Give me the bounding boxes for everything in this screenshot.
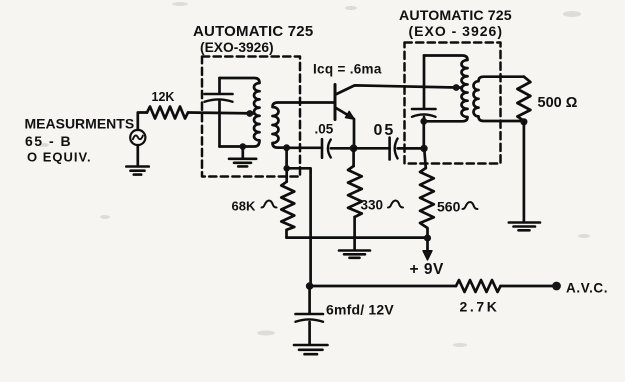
resistor 500 [517, 77, 530, 121]
resistor 560 [420, 168, 434, 238]
capacitor (T1 tank) [218, 78, 221, 147]
inductor T2 secondary [474, 77, 524, 121]
node +9V junction [424, 234, 431, 241]
label ohm squiggle 560 [463, 202, 478, 209]
label 2.7K [460, 299, 500, 315]
signal source G1 [130, 130, 145, 145]
ground (500) [509, 223, 540, 231]
transformer T1 dashed box [202, 57, 300, 177]
resistor 330 [348, 166, 362, 217]
node T1 ground junction [240, 143, 247, 150]
rail 68K bottom to +9V node [287, 236, 428, 239]
label MEASURMENTS 65-B O EQUIV. [25, 116, 135, 165]
label AUTOMATIC 725 (T2) [399, 8, 512, 39]
svg-text:12K: 12K [152, 90, 175, 104]
wire T1 bottom to .05 [287, 146, 322, 149]
node emitter junction [350, 144, 358, 152]
wire T2 top branch [423, 56, 426, 109]
inductor T1 secondary + base wire [273, 103, 335, 148]
wire 2.7K to AVC [501, 285, 557, 288]
wire source to ground [136, 145, 139, 166]
svg-text:Icq = .6ma: Icq = .6ma [313, 62, 382, 77]
label .05 [315, 122, 334, 137]
node T1 secondary bottom [283, 144, 290, 151]
wire T2 cap bottom to 05 line [422, 121, 425, 148]
node T2 / 05 junction [420, 145, 427, 152]
svg-text:500 Ω: 500 Ω [538, 95, 578, 111]
svg-text:AUTOMATIC 725: AUTOMATIC 725 [399, 8, 512, 24]
wire emitter node to 330 [352, 148, 355, 166]
node T1 primary tap [246, 110, 253, 117]
svg-text:560: 560 [437, 199, 461, 215]
svg-text:68K: 68K [232, 199, 256, 214]
wire bias node to 68K [285, 168, 288, 181]
capacitor 6mfd/12V [308, 286, 311, 314]
label 6mfd/12V [326, 302, 394, 318]
node T2 primary tap [453, 84, 460, 91]
label AUTOMATIC 725 (T1) [193, 23, 313, 55]
ground (6mfd) [294, 345, 328, 354]
svg-text:(EXO-3926): (EXO-3926) [200, 40, 274, 55]
svg-text:AUTOMATIC 725: AUTOMATIC 725 [193, 23, 313, 40]
inductor T2 primary [424, 56, 468, 122]
svg-text:O EQUIV.: O EQUIV. [27, 150, 92, 165]
resistor 12K [147, 107, 188, 119]
ground (T1) [229, 159, 256, 167]
wire 05 to T2 [398, 147, 424, 150]
node A.V.C. terminal [552, 282, 561, 291]
wire emitter node to 05 [354, 147, 390, 150]
transformer T2 dashed box [405, 43, 501, 164]
AVC rail [310, 285, 456, 288]
wire source to 12K [138, 113, 147, 130]
inductor T1 primary [220, 78, 260, 147]
label 05 [374, 122, 396, 139]
+9V supply arrow [426, 241, 429, 251]
capacitor (T2 tank) [412, 108, 436, 111]
resistor 2.7K [456, 280, 501, 292]
label 500 ohm [538, 95, 578, 111]
svg-text:MEASURMENTS: MEASURMENTS [25, 116, 135, 132]
svg-text:A.V.C.: A.V.C. [566, 281, 608, 296]
node AVC rail junction [306, 282, 314, 290]
svg-text:2.7K: 2.7K [460, 299, 500, 315]
label ohm squiggle 330 [388, 201, 403, 208]
ground (source) [126, 167, 149, 175]
wire 330 to ground [353, 217, 356, 250]
wire T1 secondary bottom down [285, 148, 288, 169]
capacitor 05 [388, 138, 391, 160]
node 500 bottom [520, 118, 527, 125]
resistor 68K [281, 182, 294, 238]
svg-text:+ 9V: + 9V [410, 261, 444, 278]
wire T1 node to ground [241, 147, 244, 159]
label Icq = .6ma [313, 62, 382, 77]
wire bias node to AVC drop [287, 168, 311, 286]
capacitor .05 [321, 139, 324, 158]
label A.V.C. [566, 281, 608, 296]
wire T2 node down to 560 [424, 148, 426, 168]
wire .05 to emitter node [331, 147, 354, 150]
label 12K [152, 90, 175, 104]
label 68K [232, 199, 256, 214]
wire 500 to ground [523, 122, 526, 223]
label 560 [437, 199, 461, 215]
svg-text:05: 05 [374, 122, 396, 139]
transistor Q1 [334, 85, 337, 120]
label ohm squiggle 68K [262, 201, 277, 208]
svg-text:330: 330 [361, 198, 384, 213]
node T2 cap bottom [420, 118, 427, 125]
svg-text:(EXO - 3926): (EXO - 3926) [409, 23, 503, 39]
ground (330) [339, 251, 370, 258]
svg-text:65 - B: 65 - B [25, 133, 72, 149]
svg-text:6mfd/ 12V: 6mfd/ 12V [326, 302, 394, 318]
label 330 [361, 198, 384, 213]
node base bias junction [283, 165, 290, 172]
wire 12K to T1 tap [188, 111, 254, 115]
label +9V [410, 261, 444, 278]
svg-text:.05: .05 [315, 122, 334, 137]
